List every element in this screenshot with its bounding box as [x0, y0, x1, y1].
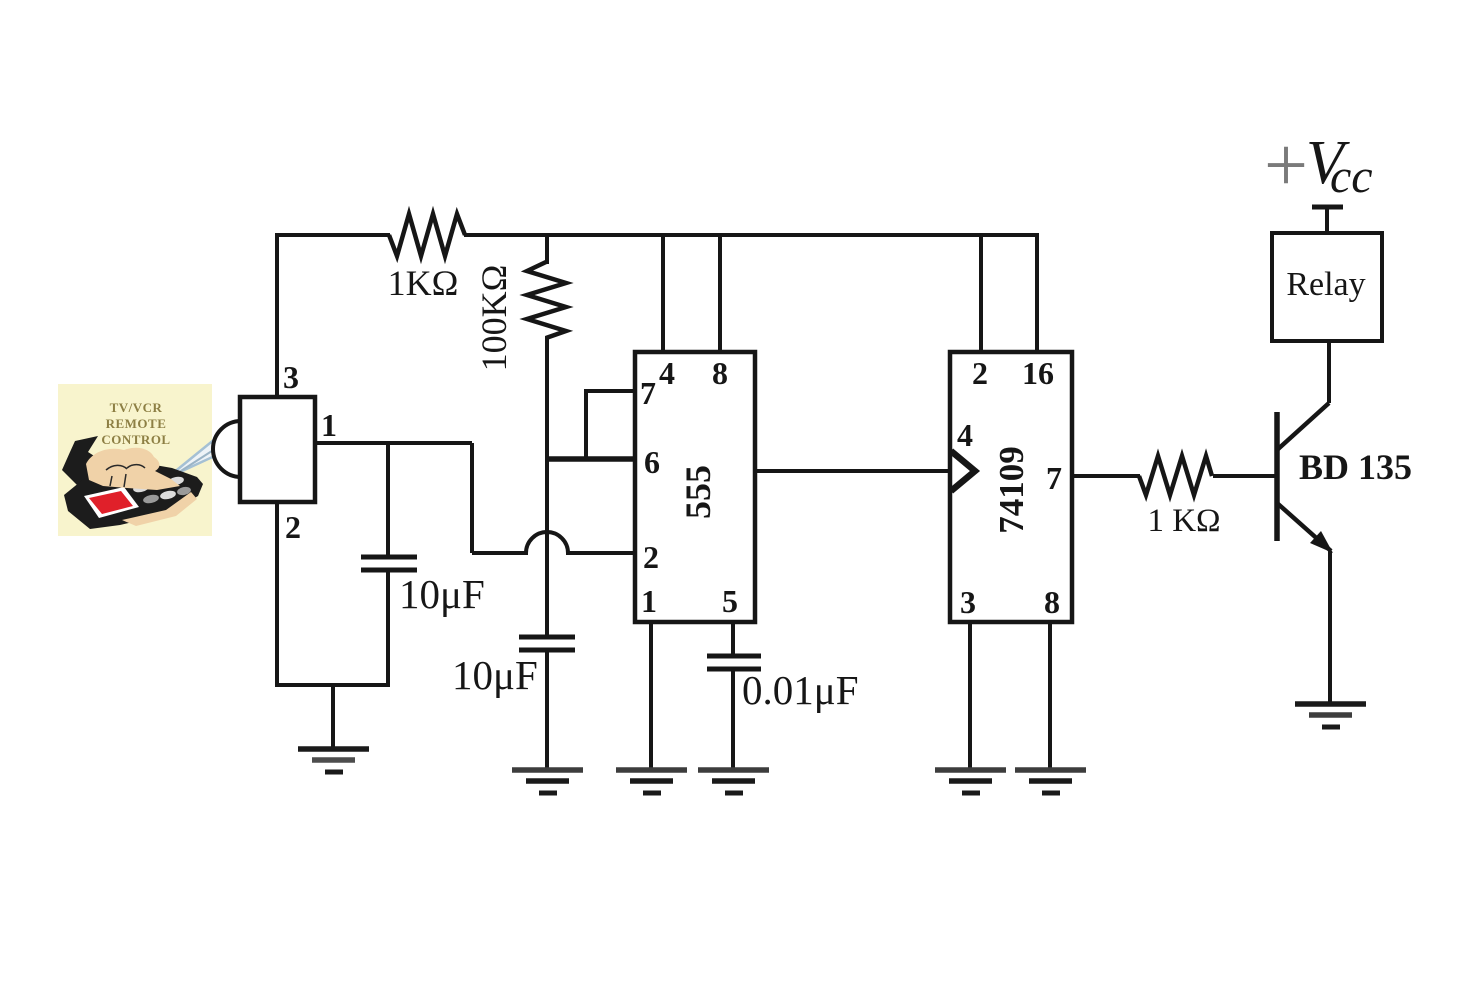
remote control clipart background: [58, 384, 212, 536]
svg-text:cc: cc: [1330, 150, 1373, 203]
wire collector to relay: [1327, 341, 1331, 403]
svg-text:REMOTE: REMOTE: [106, 416, 167, 431]
wire 555 pin8: [718, 235, 722, 352]
svg-text:1: 1: [321, 407, 337, 443]
wire 74109 pin16: [1035, 233, 1039, 352]
wire to 555 pin2 with hop: [472, 532, 635, 553]
svg-text:7: 7: [640, 375, 656, 411]
wire top rail right: [464, 233, 1037, 237]
resistor R2 100K ohm: [527, 262, 566, 338]
Vcc terminal bar: [1312, 205, 1343, 210]
wire pin1 down segment: [470, 443, 474, 553]
svg-text:CONTROL: CONTROL: [101, 432, 170, 447]
wire pin3 receiver to top rail: [275, 235, 279, 397]
ground G2: [512, 770, 583, 793]
svg-text:3: 3: [960, 584, 976, 620]
svg-text:16: 16: [1022, 355, 1054, 391]
IC U2 74109 box: [950, 352, 1072, 622]
ground G6: [1015, 770, 1086, 793]
wire bottom joining: [275, 683, 390, 687]
svg-text:100KΩ: 100KΩ: [474, 265, 514, 372]
resistor R1 1K ohm: [389, 214, 465, 256]
wire 555 pin6: [545, 456, 635, 462]
svg-text:6: 6: [644, 444, 660, 480]
relay box: [1272, 233, 1382, 341]
wire 555 output to 74109 clock: [755, 469, 950, 473]
wire 555 pin7 loop: [586, 391, 635, 459]
svg-text:1 KΩ: 1 KΩ: [1147, 503, 1220, 539]
wire 555 pin4: [661, 235, 665, 352]
ground G5: [935, 770, 1006, 793]
svg-text:3: 3: [283, 359, 299, 395]
transistor Q1 BD135: [1277, 403, 1333, 553]
wire relay to Vcc bar: [1325, 207, 1329, 233]
wire receiver pin2 down: [275, 502, 279, 687]
clock chevron: [951, 451, 975, 491]
wire C2 to ground: [545, 650, 549, 768]
capacitor C3 0.01uF plates: [707, 654, 761, 659]
svg-text:1KΩ: 1KΩ: [388, 263, 459, 303]
svg-text:74109: 74109: [992, 446, 1031, 534]
svg-text:10μF: 10μF: [452, 652, 538, 698]
wire 74109 pin8 to ground: [1048, 622, 1052, 768]
svg-text:Relay: Relay: [1286, 266, 1365, 303]
resistor R3 1K ohm: [1139, 456, 1212, 495]
IR receiver U3: [240, 397, 315, 502]
svg-text:4: 4: [957, 417, 973, 453]
svg-text:10μF: 10μF: [399, 571, 485, 617]
svg-text:BD 135: BD 135: [1299, 447, 1412, 487]
remote control hand clipart: [62, 436, 203, 529]
svg-text:2: 2: [972, 355, 988, 391]
capacitor C1 plates: [361, 555, 417, 560]
ground G7: [1295, 704, 1366, 727]
wire 555 pin1 to ground: [649, 622, 653, 768]
svg-text:TV/VCR: TV/VCR: [110, 400, 163, 415]
IC U1 555 box: [635, 352, 755, 622]
ground G1: [298, 749, 369, 772]
svg-text:8: 8: [712, 355, 728, 391]
wire 74109 pin2: [979, 235, 983, 352]
wire R3 to base: [1213, 474, 1277, 478]
svg-text:0.01μF: 0.01μF: [742, 667, 859, 713]
wire C1 bottom: [386, 570, 390, 687]
wire 74109 pin7 output: [1072, 474, 1140, 478]
wire ground stub: [331, 685, 335, 747]
svg-text:8: 8: [1044, 584, 1060, 620]
wire receiver pin1 horizontal: [315, 441, 472, 445]
wire 100K top stub: [545, 235, 549, 264]
svg-text:2: 2: [285, 509, 301, 545]
label +Vcc: [1264, 121, 1373, 208]
capacitor C1 10uF branch wire: [386, 443, 390, 556]
wire 74109 pin3 to ground: [968, 622, 972, 768]
svg-text:4: 4: [659, 355, 675, 391]
svg-text:5: 5: [722, 583, 738, 619]
IR beam: [167, 430, 232, 478]
wire C3 to ground: [731, 669, 735, 768]
svg-text:555: 555: [678, 465, 718, 519]
ground G4: [698, 770, 769, 793]
wire emitter to ground: [1328, 551, 1332, 702]
wire 100K bottom to cap C2: [545, 336, 549, 637]
IR receiver dome: [213, 421, 269, 477]
wire top rail left: [275, 233, 390, 237]
ground G3: [616, 770, 687, 793]
svg-text:2: 2: [643, 539, 659, 575]
svg-text:+: +: [1264, 121, 1308, 208]
capacitor C2 10uF plates: [519, 635, 575, 640]
wire 555 pin5 down: [731, 622, 735, 656]
svg-text:1: 1: [641, 583, 657, 619]
svg-text:7: 7: [1046, 460, 1062, 496]
